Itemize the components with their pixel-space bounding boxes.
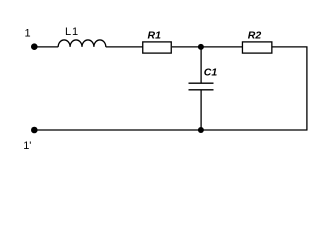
wire [272, 46, 307, 48]
svg-text:1: 1 [25, 28, 31, 40]
svg-text:R2: R2 [248, 29, 262, 41]
wire [200, 90, 202, 130]
resistor R2 [242, 42, 271, 53]
inductor L1 [58, 40, 106, 47]
wire [34, 129, 308, 131]
terminal node 1 [31, 43, 38, 50]
wire [306, 47, 308, 131]
svg-text:C1: C1 [204, 67, 218, 79]
terminal node 1' [31, 127, 38, 134]
wire [34, 46, 58, 48]
svg-text:L1: L1 [65, 26, 79, 38]
junction node B [198, 127, 204, 133]
junction node A [198, 44, 204, 50]
wire [172, 46, 243, 48]
wire [106, 46, 143, 48]
wire [200, 47, 202, 83]
resistor R1 [143, 42, 172, 53]
capacitor C1 [189, 83, 214, 90]
svg-text:R1: R1 [148, 29, 162, 41]
svg-text:1': 1' [23, 140, 31, 152]
